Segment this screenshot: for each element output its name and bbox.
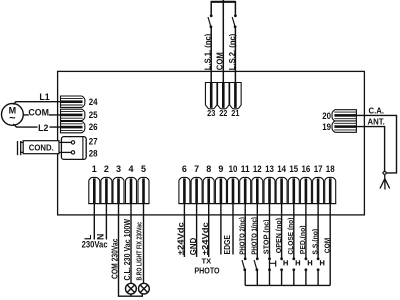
svg-text:15: 15 xyxy=(289,164,298,174)
switch S.S. (no pushbutton) xyxy=(317,257,324,271)
label L1 xyxy=(38,92,51,102)
terminal 7 xyxy=(191,177,202,203)
antenna symbol xyxy=(380,175,390,190)
terminal 25 xyxy=(61,109,85,120)
wire terminal 17 xyxy=(317,204,319,259)
terminal 23 xyxy=(205,83,217,109)
svg-text:~: ~ xyxy=(9,113,16,125)
svg-text:TX: TX xyxy=(201,257,211,266)
terminal 12 xyxy=(252,177,263,203)
wire terminal 1 (L) xyxy=(93,204,95,240)
svg-text:L.S.2. (nc): L.S.2. (nc) xyxy=(228,33,237,70)
wire terminal 18 (COM) xyxy=(329,204,331,286)
svg-text:ANT.: ANT. xyxy=(368,118,385,127)
svg-text:4: 4 xyxy=(128,164,133,174)
wire terminal 11 xyxy=(244,204,246,259)
wire terminal 16 xyxy=(305,204,307,259)
terminal 8 xyxy=(203,177,214,203)
wire terminal 8 xyxy=(208,204,210,257)
svg-text:L2: L2 xyxy=(38,123,48,133)
wire C.A. xyxy=(356,115,397,172)
svg-text:L1: L1 xyxy=(39,92,49,102)
wire L1 (motor to terminal 24) xyxy=(14,102,81,105)
svg-text:6: 6 xyxy=(182,164,187,174)
svg-text:S.S.(no): S.S.(no) xyxy=(310,228,319,254)
common bus wire xyxy=(245,284,330,286)
motor M1 xyxy=(2,104,24,126)
svg-text:OPEN (no): OPEN (no) xyxy=(274,217,283,253)
wire COND to 27 xyxy=(21,141,72,143)
terminal 4 xyxy=(126,177,137,203)
terminal 17 xyxy=(313,177,324,203)
label L2 xyxy=(38,123,50,133)
wire terminal 9 (edge) xyxy=(220,204,222,255)
switch PHOTO 1 xyxy=(254,257,259,271)
svg-text:19: 19 xyxy=(322,122,331,132)
svg-text:27: 27 xyxy=(89,136,98,146)
terminal 16 xyxy=(300,177,311,203)
svg-text:230Vac: 230Vac xyxy=(82,239,108,249)
svg-text:COM: COM xyxy=(216,52,225,70)
svg-text:23: 23 xyxy=(207,108,215,118)
antenna junction dot xyxy=(383,172,386,175)
capacitor COND C1 xyxy=(18,141,60,156)
svg-text:13: 13 xyxy=(265,164,274,174)
svg-text:20: 20 xyxy=(322,111,331,121)
wire terminal 10 (edge) xyxy=(232,204,234,255)
wire COM (motor to terminal 25) xyxy=(23,114,80,116)
wire terminal 5 (B.RO) xyxy=(143,204,145,284)
svg-text:CLOSE (no): CLOSE (no) xyxy=(286,217,295,254)
svg-text:17: 17 xyxy=(314,164,323,174)
wire L.S.2 lower xyxy=(234,27,236,83)
block 21-23 top edge xyxy=(205,82,241,84)
svg-text:16: 16 xyxy=(302,164,311,174)
switch PED (no pushbutton) xyxy=(305,257,312,271)
svg-text:22: 22 xyxy=(219,108,227,118)
wire terminal 4 (C.L.) xyxy=(130,204,132,284)
svg-text:9: 9 xyxy=(218,164,223,174)
svg-text:COM 230Vac: COM 230Vac xyxy=(109,238,119,279)
wire ANT. xyxy=(356,127,385,171)
wire terminal 7 xyxy=(196,204,198,257)
svg-text:2: 2 xyxy=(104,164,109,174)
terminal 19 xyxy=(332,121,356,132)
terminal block 27-28 xyxy=(61,137,86,160)
svg-text:STOP (nc): STOP (nc) xyxy=(262,219,271,254)
label COM (motor) xyxy=(28,108,49,118)
wire terminal 12 xyxy=(256,204,258,259)
wire L.S.2 upper xyxy=(234,1,236,16)
terminal 10 xyxy=(228,177,239,203)
switch OPEN (no pushbutton) xyxy=(280,257,287,271)
terminal 14 xyxy=(276,177,287,203)
terminal 18 xyxy=(325,177,336,203)
svg-text:12: 12 xyxy=(253,164,262,174)
svg-text:COM: COM xyxy=(322,238,331,253)
svg-text:±24Vdc: ±24Vdc xyxy=(201,221,210,255)
wire terminal 13 xyxy=(269,204,271,259)
svg-text:L.S.1. (nc): L.S.1. (nc) xyxy=(204,33,213,70)
terminal 24 xyxy=(61,96,85,107)
terminal 21 xyxy=(230,83,242,109)
svg-text:25: 25 xyxy=(89,110,98,120)
svg-text:21: 21 xyxy=(231,108,239,118)
block 1-5 bottom edge xyxy=(88,203,149,205)
svg-text:C.L. 230 Vac 100W: C.L. 230 Vac 100W xyxy=(123,219,132,281)
lamp (blinker) xyxy=(139,283,150,294)
lamp (courtesy light) xyxy=(125,283,136,294)
svg-text:C.A.: C.A. xyxy=(369,107,385,116)
terminal 13 xyxy=(264,177,275,203)
wire L.S.1 lower xyxy=(210,27,212,83)
svg-text:GND: GND xyxy=(189,237,198,255)
wire L.S.1 upper xyxy=(210,1,212,16)
terminal 22 xyxy=(218,83,230,109)
svg-text:EDGE: EDGE xyxy=(223,235,232,255)
svg-text:11: 11 xyxy=(241,164,250,174)
svg-text:COND.: COND. xyxy=(29,142,54,152)
terminal 1 xyxy=(89,177,100,203)
svg-text:28: 28 xyxy=(89,149,98,159)
switch CLOSE (no pushbutton) xyxy=(292,257,299,271)
top bus bar (L.S. common) xyxy=(211,1,235,3)
wire terminal 14 xyxy=(281,204,283,259)
terminal 6 xyxy=(179,177,190,203)
svg-text:18: 18 xyxy=(326,164,335,174)
switch STOP (nc pushbutton) xyxy=(268,257,276,271)
terminal 2 xyxy=(101,177,112,203)
svg-text:COM: COM xyxy=(28,108,49,118)
terminal 20 xyxy=(332,110,356,121)
svg-text:PHOTO 1(nc): PHOTO 1(nc) xyxy=(250,217,259,255)
svg-text:PHOTO 2(nc): PHOTO 2(nc) xyxy=(237,217,246,255)
svg-text:10: 10 xyxy=(229,164,238,174)
terminal 15 xyxy=(288,177,299,203)
wire terminal 6 xyxy=(183,204,185,257)
svg-text:26: 26 xyxy=(89,122,98,132)
wire terminal 3 (COM 230Vac) xyxy=(119,204,143,297)
svg-text:14: 14 xyxy=(277,164,286,174)
terminal 5 xyxy=(138,177,149,203)
main board outline xyxy=(58,71,365,215)
block 6-18 bottom edge xyxy=(178,203,336,205)
switch L.S.2 xyxy=(232,14,237,28)
wire terminal 2 (N) xyxy=(105,204,107,240)
wire terminal 15 xyxy=(293,204,295,259)
svg-text:PED.(no): PED.(no) xyxy=(298,225,307,254)
wire COM (top, to terminal 22) xyxy=(222,0,224,83)
svg-text:8: 8 xyxy=(206,164,211,174)
switch PHOTO 2 xyxy=(242,257,247,271)
svg-text:24: 24 xyxy=(89,97,98,107)
svg-text:5: 5 xyxy=(141,164,146,174)
svg-text:7: 7 xyxy=(194,164,199,174)
terminal 9 xyxy=(215,177,226,203)
svg-text:PHOTO: PHOTO xyxy=(194,267,219,276)
svg-text:1: 1 xyxy=(92,164,97,174)
svg-text:B.RO LIGHT FIX 230Vac: B.RO LIGHT FIX 230Vac xyxy=(137,222,144,281)
wire COND to 28 xyxy=(21,151,72,153)
terminal 26 xyxy=(61,121,85,132)
svg-text:±24Vdc: ±24Vdc xyxy=(177,221,186,255)
svg-text:3: 3 xyxy=(116,164,121,174)
terminal 3 xyxy=(113,177,124,203)
wire L2 (motor to terminal 26) xyxy=(13,124,80,127)
terminal 11 xyxy=(240,177,251,203)
switch L.S.1 xyxy=(208,14,213,28)
